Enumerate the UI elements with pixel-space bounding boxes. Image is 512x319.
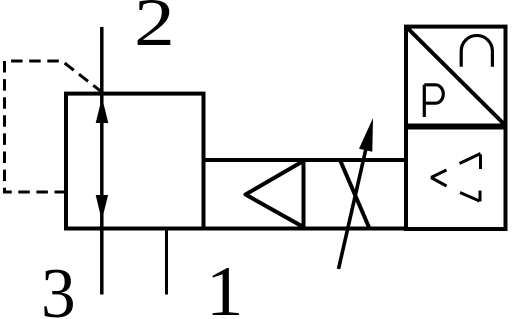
dashed triangle segment a (left apex upper) [431, 170, 447, 178]
dashed triangle segment d (right side upper) [479, 155, 482, 170]
port label 2 [134, 0, 175, 56]
gauge letter P [424, 85, 443, 117]
pilot dashed line [5, 61, 101, 192]
dashed triangle segment b (left apex lower) [431, 178, 447, 187]
divider between check valve and throttle cells [302, 160, 306, 229]
dashed triangle segment c (top side) [460, 154, 481, 164]
adjustment arrow shaft [339, 131, 371, 269]
up arrowhead [96, 98, 109, 124]
adjustment arrow head [359, 118, 373, 152]
dashed triangle segment e (bottom side) [460, 193, 480, 202]
port label 1 [206, 255, 243, 319]
regulator vertical flow line [100, 27, 104, 295]
port 1 line [165, 229, 168, 295]
flow sensor box (bottom right) [406, 128, 506, 230]
port label 3 [41, 257, 76, 319]
check valve triangle [246, 162, 303, 227]
dashed triangle segment f (right side lower) [479, 191, 482, 202]
throttle diagonal line [340, 160, 370, 229]
gauge horseshoe symbol [461, 35, 492, 66]
gauge box (top right) [406, 27, 506, 126]
regulator body (left box) [66, 94, 204, 229]
valve body (middle rectangle) [204, 160, 407, 229]
down arrowhead [96, 195, 108, 221]
gauge box diagonal [406, 27, 506, 126]
